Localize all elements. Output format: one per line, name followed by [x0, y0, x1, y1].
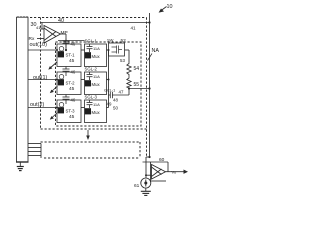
svg-text:10: 10 [167, 4, 173, 10]
svg-text:SGL-2: SGL-2 [85, 67, 98, 72]
node dot row2 join [108, 79, 110, 81]
wire switch to resistor chain [125, 50, 130, 62]
svg-text:ST-1: ST-1 [66, 53, 76, 58]
figure arrow 10 [159, 7, 167, 13]
node dot resistor tap [128, 87, 130, 89]
wire row1 to switch [107, 49, 109, 51]
capacitor C6 [87, 100, 93, 108]
wire resistor bottom [128, 89, 130, 96]
dashed box inner sense array [56, 42, 142, 126]
capacitor C5 [87, 72, 93, 80]
sense block ST-1 box [57, 44, 81, 67]
mux square row2 [85, 80, 91, 86]
svg-text:61: 61 [134, 183, 140, 189]
node dot on bus [148, 87, 150, 89]
wire U2 minus input from bus [146, 174, 152, 176]
svg-text:Mux: Mux [92, 54, 101, 59]
svg-text:47: 47 [119, 90, 124, 95]
capacitor C7 (48) [109, 92, 130, 98]
svg-text:46: 46 [71, 98, 76, 103]
node dot bus bottom corner [148, 156, 150, 158]
wire Vcom rail under opamp [58, 40, 85, 42]
svg-text:ST-3: ST-3 [66, 109, 76, 114]
wire U2 output with arrow [166, 170, 189, 175]
svg-text:GCL-1: GCL-1 [104, 89, 115, 93]
svg-text:11A: 11A [93, 102, 100, 107]
svg-text:52: 52 [121, 38, 127, 44]
dashed boundary line bottom [44, 157, 140, 159]
svg-text:49: 49 [107, 102, 112, 107]
op-amp U2 output buffer [152, 165, 166, 180]
svg-text:50: 50 [113, 106, 118, 111]
transistor circle row2 [59, 75, 64, 80]
svg-text:SW: SW [107, 38, 114, 43]
mux block SGL-1 box [85, 44, 107, 67]
arrow ellipsis 1 [48, 62, 57, 70]
bus line NA vertical [146, 13, 150, 178]
mux block SGL-2 box [85, 72, 107, 95]
wire row1 between boxes [81, 49, 85, 51]
svg-text:ST-2: ST-2 [66, 81, 76, 86]
op-amp U1 MP [44, 26, 61, 44]
switch square row2 [58, 79, 64, 85]
svg-text:48: 48 [113, 98, 118, 103]
wire row3 between boxes [81, 107, 85, 109]
svg-text:45: 45 [69, 86, 75, 92]
ground GND1 below bar [17, 162, 24, 171]
wire U1 output [61, 34, 67, 50]
svg-text:41: 41 [131, 26, 137, 31]
node dot row3 entry [56, 107, 58, 109]
resistor R1 (54) [127, 62, 131, 76]
mux block SGL-3 box [85, 100, 107, 123]
wire column junction [107, 50, 109, 108]
wire U1 bottom input from bar [37, 38, 44, 40]
dashed boundary line mid [41, 141, 140, 143]
capacitor C4 [87, 44, 93, 52]
node dot row1 entry [56, 49, 58, 51]
transistor circle row1 [59, 47, 64, 52]
capacitor C2 [63, 67, 70, 77]
svg-text:11A: 11A [93, 46, 100, 51]
transistor Q1 inside switch box [112, 46, 123, 54]
svg-text:53: 53 [120, 58, 125, 63]
arrow ellipsis 2 [50, 86, 58, 93]
svg-text:45: 45 [69, 58, 75, 64]
arrow feed down [86, 130, 90, 140]
wire U1 top input [41, 23, 45, 30]
node dot output joins row1 [65, 49, 67, 51]
svg-text:out(1): out(1) [33, 75, 48, 81]
wire row2 out [28, 79, 57, 81]
switch square row3 [58, 107, 64, 113]
node dot row2 entry [56, 79, 58, 81]
arrow ellipsis 3 [50, 113, 58, 120]
dashed box 10 outer [30, 18, 147, 158]
dashed boundary corner vertical [139, 142, 141, 157]
svg-text:SGL-3: SGL-3 [85, 95, 98, 100]
sense block ST-3 box [57, 100, 81, 123]
svg-text:Mux: Mux [92, 110, 101, 115]
switch square row1 [58, 51, 64, 57]
wire tap to bus [129, 88, 150, 90]
svg-text:Vo: Vo [172, 170, 177, 175]
node dot row1 join [108, 49, 110, 51]
resistor R2 (55) [127, 76, 131, 89]
wire ladder bar to node [28, 144, 41, 159]
sense block ST-2 box [57, 72, 81, 95]
wire row3 out [28, 107, 57, 109]
svg-text:54: 54 [134, 66, 140, 72]
mux square row1 [85, 52, 91, 58]
feedback loop U2 [143, 162, 169, 181]
svg-text:out(2): out(2) [30, 102, 45, 108]
svg-text:40: 40 [58, 18, 64, 24]
node dot bus top rail [148, 21, 150, 23]
current source I1 (61) circle [141, 178, 151, 188]
capacitor C1 [63, 39, 70, 49]
svg-text:MP: MP [61, 30, 68, 36]
wire row2 between boxes [81, 79, 85, 81]
svg-text:SGL-1: SGL-1 [85, 39, 98, 44]
wire row1 out [28, 49, 57, 51]
transistor circle row3 [59, 103, 64, 108]
wire Vref top rail [41, 22, 150, 24]
svg-text:46: 46 [71, 42, 76, 47]
switch box 52 [109, 43, 125, 56]
svg-text:11A: 11A [93, 74, 100, 79]
svg-text:Mux: Mux [92, 82, 101, 87]
svg-text:45: 45 [69, 114, 75, 120]
mux square row3 [85, 108, 91, 114]
svg-text:55: 55 [134, 82, 140, 88]
leader NA to bus [148, 54, 153, 61]
capacitor C3 [63, 95, 70, 105]
svg-text:46: 46 [71, 70, 76, 75]
svg-text:out(10): out(10) [30, 42, 48, 48]
svg-text:NA: NA [152, 48, 160, 54]
display electrode bar 20 [16, 16, 29, 162]
node dot U2 input [145, 174, 147, 176]
ground GND2 below current source [141, 188, 151, 195]
